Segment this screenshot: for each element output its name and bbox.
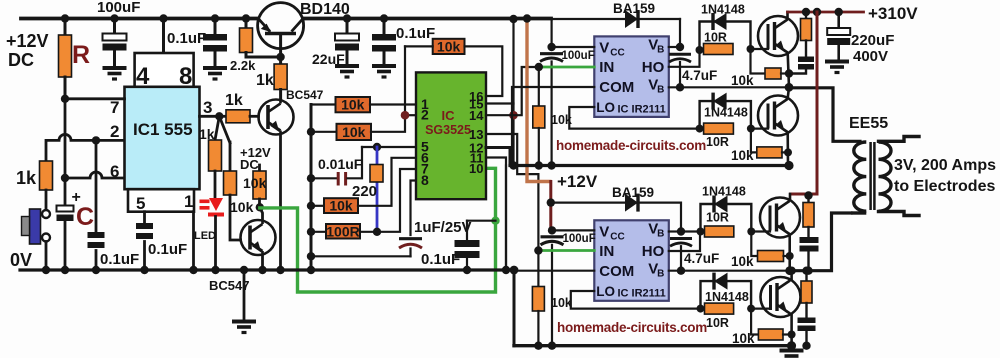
node pin7 junction: [61, 95, 69, 103]
node gate Q5 junctions: [696, 125, 704, 133]
node COM rail end: [784, 161, 793, 170]
wire gate Q6: [751, 230, 770, 232]
wire Q4 collector to +310V: [786, 12, 789, 19]
svg-text:+12V: +12V: [557, 172, 598, 191]
svg-text:1uF/25V: 1uF/25V: [414, 219, 472, 236]
svg-text:10R: 10R: [706, 211, 729, 225]
wire midpoint1 to transformer: [789, 88, 860, 142]
svg-text:V: V: [648, 260, 658, 277]
node gate Q7 junctions: [697, 305, 705, 313]
svg-text:IC: IC: [442, 108, 456, 123]
wire LO1 to gate network: [569, 107, 699, 129]
node rail-513 junction: [509, 15, 517, 23]
wire maroon 12V drop: [549, 182, 552, 231]
svg-text:10k: 10k: [230, 199, 254, 215]
resistor 10k gate-emitter Q4: [751, 49, 766, 74]
svg-text:CC: CC: [610, 47, 624, 58]
svg-text:14: 14: [469, 108, 484, 123]
resistor 220: [370, 165, 383, 183]
capacitor C electrolytic: [64, 178, 67, 206]
node 10k-pin6 junction: [307, 202, 315, 210]
node IN2 junction: [534, 246, 542, 254]
node Q7 collector junction: [787, 267, 795, 275]
node pin2-cap junction: [92, 136, 100, 144]
wire Q6 collector: [789, 194, 792, 200]
resistor 10R gate Q4 top: [700, 22, 751, 50]
ground under 220uF: [825, 62, 849, 73]
svg-text:to Electrodes: to Electrodes: [894, 178, 995, 195]
svg-text:IC IR2111: IC IR2111: [617, 103, 665, 115]
wire sienna 12V feed: [527, 19, 550, 182]
resistor 1k collector BC547: [279, 57, 282, 64]
svg-text:4: 4: [136, 63, 150, 90]
resistor 10k IN1 pulldown: [538, 67, 540, 106]
resistor snubber R upper: [805, 12, 807, 19]
svg-text:10k: 10k: [731, 73, 754, 88]
wire pin5 to cap: [143, 212, 146, 223]
wire +12V top rail: [21, 17, 551, 21]
wire pin14 to IN1: [486, 67, 539, 115]
wire COM rail upper bridge: [510, 164, 789, 167]
svg-text:8: 8: [421, 172, 429, 188]
transistor Q3 BC547: [241, 220, 276, 255]
svg-text:V: V: [648, 76, 658, 93]
svg-text:100uF: 100uF: [562, 50, 595, 62]
node VS1 cap junction: [676, 83, 684, 91]
transistor Q4 IGBT high upper: [758, 16, 798, 56]
svg-text:DC: DC: [240, 157, 259, 172]
svg-text:homemade-circuits.com: homemade-circuits.com: [556, 138, 706, 153]
IC U4 IR2111 lower: [594, 220, 669, 300]
svg-text:V: V: [648, 220, 658, 237]
ground under 100uF: [103, 68, 127, 79]
svg-text:100uF: 100uF: [563, 233, 596, 245]
wire BA159 to VB1: [679, 19, 681, 47]
svg-text:10R: 10R: [706, 135, 729, 149]
svg-text:1k: 1k: [16, 168, 37, 188]
wire LO2 to gate network: [571, 291, 700, 309]
wire green shutdown link: [260, 168, 496, 292]
svg-text:HO: HO: [642, 59, 665, 76]
wire BC547 emitter to 0V rail: [279, 135, 282, 271]
resistor 1k to LED: [215, 116, 219, 140]
wire VB2: [669, 230, 681, 232]
transformer EE55 primary winding: [851, 211, 866, 214]
wire HO1: [669, 50, 700, 67]
node +310V junctions: [802, 8, 810, 16]
node VB1 junction: [676, 43, 684, 51]
op-amp IC2 SG3525 body: [416, 72, 486, 199]
capacitor 220uF 400V: [837, 12, 840, 28]
node snubber lower1 junction: [804, 267, 812, 275]
svg-text:DC: DC: [8, 50, 34, 70]
wire rail to IC1 top: [162, 19, 165, 54]
wire Vcc2: [552, 229, 594, 231]
wire COM1: [512, 87, 594, 166]
wire Q3 emitter to 0V: [261, 255, 264, 270]
diode BA159 lower: [551, 203, 681, 231]
resistor snubber R lower1: [804, 191, 812, 199]
capacitor snubber C lower2: [805, 303, 807, 318]
svg-text:BD140: BD140: [300, 1, 350, 18]
svg-text:10k: 10k: [243, 175, 267, 191]
svg-text:4.7uF: 4.7uF: [682, 68, 717, 83]
capacitor 0.1uF shutdown: [466, 221, 468, 240]
wire Q7 collector: [790, 271, 793, 279]
svg-text:10k: 10k: [731, 148, 754, 163]
wire COM2: [514, 270, 594, 272]
node pin5-blue junction: [373, 143, 381, 151]
wire secondary lead top: [879, 137, 920, 142]
svg-text:10: 10: [469, 161, 483, 176]
svg-text:1N4148: 1N4148: [705, 290, 749, 304]
wire R column down to pin6 node: [64, 99, 67, 178]
ground bottom rail: [790, 346, 793, 350]
svg-text:2: 2: [110, 122, 119, 141]
wire IN2 green: [538, 249, 594, 252]
svg-text:COM: COM: [599, 79, 634, 96]
node 0V junctions: [42, 266, 50, 274]
wire Q6 emitter to midpoint2: [788, 234, 791, 270]
svg-text:R: R: [72, 41, 90, 69]
svg-text:10k: 10k: [329, 198, 353, 214]
op-amp IC1 555 body: [135, 53, 194, 87]
node maroon junction pin14: [509, 111, 518, 120]
resistor 10k to pin6: [311, 205, 324, 207]
svg-text:100uF: 100uF: [97, 0, 140, 16]
node Q3 collector junction: [256, 203, 264, 211]
wire 10k-top left leg: [405, 45, 433, 47]
resistor snubber R lower2: [802, 267, 810, 275]
wire COM rail to 0V link: [505, 166, 507, 271]
svg-text:10R: 10R: [704, 31, 727, 45]
capacitor 0.01uF: [311, 177, 336, 179]
svg-text:LO: LO: [596, 284, 615, 299]
svg-text:1k: 1k: [225, 92, 243, 109]
svg-text:100R: 100R: [326, 223, 359, 239]
resistor 10R gate Q5: [700, 101, 751, 129]
svg-text:V: V: [648, 36, 658, 53]
node Q6 10k junction: [786, 252, 794, 260]
node snubber lower2 bottom junction: [802, 342, 810, 350]
svg-text:C: C: [76, 203, 94, 231]
capacitor 100uF IR1: [550, 19, 552, 47]
node 1uF return junction: [307, 252, 315, 260]
node Vcc1 junction: [547, 43, 555, 51]
resistor 10k base Q3: [224, 171, 237, 195]
wire bottom power rail: [514, 344, 792, 347]
node rail-0.1uF-2 junction: [380, 14, 388, 22]
svg-text:1N4148: 1N4148: [702, 185, 746, 199]
transformer EE55 core: [871, 142, 875, 210]
wire VS2 to midpoint2: [669, 270, 790, 272]
svg-text:0.01uF: 0.01uF: [318, 156, 363, 172]
svg-text:IN: IN: [599, 243, 614, 260]
svg-text:10k: 10k: [437, 38, 461, 54]
resistor 10k IN2 pulldown: [537, 251, 539, 287]
svg-text:220uF: 220uF: [851, 32, 894, 49]
wire Q5 collector: [788, 87, 789, 98]
wire pin3 to Q3 base: [219, 116, 230, 143]
capacitor 100uF IR2: [551, 230, 553, 232]
svg-text:V: V: [599, 39, 609, 56]
transistor Q6 IGBT high lower: [760, 198, 800, 238]
svg-text:0.1uF: 0.1uF: [148, 241, 187, 258]
wire pin6 with hop: [65, 172, 125, 178]
resistor 10k gate-emitter Q6: [751, 232, 757, 257]
svg-text:BA159: BA159: [612, 185, 654, 200]
svg-text:10k: 10k: [342, 124, 366, 140]
wire VB1: [669, 46, 680, 48]
resistor 1k base Q2: [219, 115, 226, 118]
capacitor 22uF: [346, 19, 349, 34]
node pin3 junction: [215, 112, 223, 120]
wire secondary lead bottom: [879, 212, 920, 216]
svg-text:1N4148: 1N4148: [701, 3, 745, 17]
node 0.01uF junction: [307, 174, 315, 182]
node gate Q4 junction: [696, 46, 704, 54]
wire Q4 emitter to midpoint: [788, 53, 789, 88]
node rail-2.2k junction: [242, 14, 250, 22]
svg-text:CC: CC: [610, 231, 624, 242]
svg-text:EE55: EE55: [849, 115, 888, 132]
svg-text:5: 5: [136, 194, 145, 213]
wire Q5 emitter to COM rail: [786, 132, 789, 165]
node VB2 junction: [677, 227, 685, 235]
svg-text:IN: IN: [599, 59, 614, 76]
wire pin8 to 1uF: [411, 181, 417, 236]
capacitor snubber C upper: [805, 41, 807, 57]
svg-text:1k: 1k: [256, 72, 274, 89]
wire pin1 to 0V: [192, 212, 195, 270]
wire pin5: [362, 146, 416, 148]
wire ground column 311: [310, 105, 313, 271]
svg-text:4.7uF: 4.7uF: [684, 251, 719, 266]
capacitor 0.1uF beside 22uF: [383, 19, 386, 35]
svg-text:BA159: BA159: [613, 1, 655, 16]
node pin6 junction: [61, 174, 69, 182]
svg-text:IC IR2111: IC IR2111: [617, 287, 665, 299]
wire pin13 to IN2: [486, 134, 538, 251]
svg-text:IC1 555: IC1 555: [133, 120, 193, 139]
node midpoint1: [785, 83, 794, 92]
node BA159 tap: [547, 198, 555, 206]
node rail-100uF junction: [110, 14, 118, 22]
IC U3 IR2111 upper: [594, 36, 669, 117]
node Q7 10k junction: [788, 331, 796, 339]
svg-text:400V: 400V: [853, 48, 888, 65]
push button switch: [30, 209, 41, 244]
svg-text:10k: 10k: [341, 97, 365, 113]
node 100R junction: [307, 228, 315, 236]
wire 0.1uF to green node: [467, 220, 496, 222]
svg-text:8: 8: [179, 63, 192, 90]
node Q5 10k junction: [784, 148, 792, 156]
wire 0V drop to bottom rail: [513, 270, 516, 346]
svg-text:0.1uF: 0.1uF: [100, 251, 139, 268]
svg-text:SG3525: SG3525: [425, 123, 471, 137]
resistor 10k collector Q3 from +12V: [258, 165, 261, 171]
wire pin12 to COM rail: [486, 148, 510, 166]
ground stub below 0V rail: [243, 270, 246, 321]
transistor Q2 BC547: [259, 100, 294, 135]
capacitor snubber C lower1: [807, 227, 809, 237]
wire button to 0V: [45, 242, 48, 271]
wire 1uF return: [311, 255, 411, 257]
transistor Q7 IGBT low lower: [761, 277, 801, 317]
svg-text:1k: 1k: [199, 126, 215, 142]
wire gate Q5: [751, 128, 768, 130]
ground under 22uF: [335, 66, 359, 77]
svg-text:LED: LED: [194, 230, 216, 242]
wire VB2 to 10R node: [681, 230, 701, 232]
ground under 0.1uF: [203, 68, 227, 79]
node rail-R junction: [61, 14, 69, 22]
node rail-IC1 pin4/8 junction: [159, 14, 167, 22]
svg-text:COM: COM: [599, 263, 634, 280]
capacitor 100uF input filter: [113, 19, 116, 34]
node green cap junction: [491, 217, 499, 225]
node IN1 junction: [535, 63, 543, 71]
resistor 10R gate Q7: [701, 281, 752, 309]
resistor 10k to pin1 SG3525: [311, 103, 336, 105]
svg-text:10k: 10k: [551, 296, 572, 310]
resistor R: [64, 19, 67, 36]
wire gate Q7: [751, 308, 770, 310]
svg-text:0.1uF: 0.1uF: [421, 251, 460, 268]
node 0V rail end: [510, 266, 519, 275]
node midpoint1 snubber junction: [785, 69, 793, 77]
wire midpoint2 to transformer: [790, 213, 851, 271]
wire LED to 0V: [214, 217, 217, 271]
svg-text:0.1uF: 0.1uF: [167, 30, 206, 47]
svg-text:3V, 200 Amps: 3V, 200 Amps: [894, 157, 996, 174]
svg-text:0.1uF: 0.1uF: [396, 25, 435, 42]
capacitor 0.1uF at pin2: [95, 140, 98, 232]
node maroon junction pin2: [401, 111, 410, 120]
wire pin7: [65, 97, 125, 100]
node gate Q6 junctions: [697, 228, 705, 236]
node rail-sienna junction: [523, 14, 531, 22]
wire pin2 stub: [405, 114, 416, 116]
svg-text:1N4148: 1N4148: [704, 106, 748, 120]
LED: [200, 198, 225, 217]
resistor 2.2k: [245, 19, 248, 29]
svg-text:1: 1: [184, 192, 193, 211]
capacitor 4.7uF bootstrap lower: [670, 237, 692, 240]
wire Vcc1: [552, 46, 595, 48]
wire Q7 emitter to bottom rail: [790, 314, 793, 346]
svg-text:10k: 10k: [732, 331, 755, 346]
wire 10k-top right to pin16: [465, 46, 503, 96]
svg-text:0V: 0V: [10, 250, 32, 270]
svg-text:+12V: +12V: [6, 31, 49, 51]
node midpoint2: [785, 266, 794, 275]
wire 513 column to COM rail: [512, 104, 514, 166]
wire Q3 collector: [260, 207, 263, 220]
node 0V ground junction: [240, 266, 248, 274]
wire gate Q4: [751, 48, 769, 50]
svg-text:7: 7: [110, 98, 119, 117]
svg-text:10R: 10R: [706, 316, 729, 330]
capacitor 4.7uF bootstrap upper: [669, 53, 691, 56]
wire pin3: [200, 115, 220, 118]
node Vcc2 junction: [548, 226, 556, 234]
wire thin rail extension to BA159 D1: [551, 18, 680, 20]
diode BA159 upper: [625, 10, 638, 28]
wire +310V rail: [788, 11, 864, 14]
resistor 100R to pin7: [311, 231, 326, 233]
node rail-22uF junction: [343, 14, 351, 22]
svg-text:HO: HO: [642, 243, 665, 260]
svg-text:LO: LO: [596, 100, 615, 115]
node COM rail junctions: [509, 161, 517, 169]
wire IN1 green: [539, 66, 595, 69]
node VS2 cap junction: [677, 267, 685, 275]
wire pin15 to rail: [486, 19, 514, 104]
node rail-0.1uF junction: [211, 14, 219, 22]
svg-text:V: V: [599, 223, 609, 240]
wire pin11 down: [486, 158, 506, 271]
wire HO2: [669, 232, 700, 252]
node BD140 base junction: [276, 53, 284, 61]
node bottom rail junctions: [534, 342, 542, 350]
resistor 10k to pin2 SG3525: [311, 131, 337, 133]
svg-text:3: 3: [203, 98, 212, 117]
resistor 10R gate Q6: [701, 204, 752, 232]
transistor Q1 BD140: [258, 3, 304, 49]
node blue-100R junction: [373, 228, 381, 236]
wire maroon HV drop: [791, 12, 818, 194]
resistor 10k gate-emitter Q5: [751, 129, 757, 153]
capacitor 1uF/25V: [399, 237, 422, 240]
wire VS1 to midpoint: [669, 86, 789, 88]
resistor 1k timing: [45, 140, 48, 161]
transformer EE55 secondary winding: [879, 142, 892, 211]
capacitor 0.1uF at pin5: [136, 223, 153, 229]
wire blue link: [376, 147, 379, 232]
svg-text:BC547: BC547: [286, 88, 324, 102]
ground under 0.1uF-2: [372, 66, 396, 77]
svg-text:+310V: +310V: [868, 4, 918, 23]
svg-text:homemade-circuits.com: homemade-circuits.com: [557, 320, 707, 335]
resistor 10k feedback top: [433, 39, 465, 54]
resistor 10k gate-emitter Q7: [751, 309, 758, 335]
svg-text:2.2k: 2.2k: [230, 58, 256, 73]
svg-text:10k: 10k: [731, 254, 754, 269]
transistor Q5 IGBT low upper: [758, 96, 798, 136]
svg-text:2: 2: [421, 107, 429, 123]
node 10k-pin2 junction: [307, 128, 315, 136]
wire pin2 with hop: [46, 134, 125, 140]
wire 0V rail: [20, 268, 514, 271]
capacitor 0.1uF beside IC1: [214, 19, 217, 35]
svg-text:22uF: 22uF: [312, 51, 345, 67]
